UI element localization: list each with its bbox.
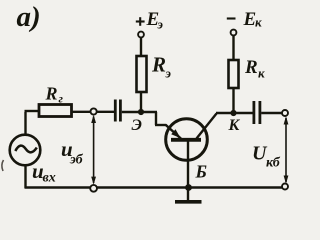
svg-text:R: R bbox=[151, 53, 166, 77]
svg-text:вх: вх bbox=[43, 171, 56, 186]
svg-text:г: г bbox=[59, 92, 64, 106]
svg-text:R: R bbox=[244, 57, 258, 78]
svg-text:кб: кб bbox=[266, 156, 281, 171]
svg-text:эб: эб bbox=[69, 153, 84, 168]
svg-text:а): а) bbox=[17, 1, 41, 33]
svg-text:Э: Э bbox=[132, 117, 142, 134]
svg-text:э: э bbox=[165, 66, 172, 81]
svg-text:Б: Б bbox=[195, 162, 207, 182]
svg-text:к: к bbox=[255, 15, 262, 30]
svg-text:э: э bbox=[157, 17, 164, 32]
svg-text:R: R bbox=[45, 84, 58, 104]
svg-text:к: к bbox=[258, 66, 265, 81]
svg-text:К: К bbox=[228, 117, 241, 134]
